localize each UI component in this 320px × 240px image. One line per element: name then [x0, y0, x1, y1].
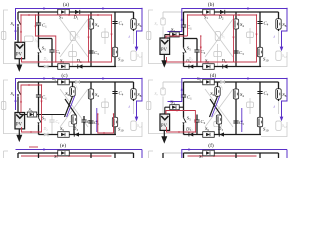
- ghost diode on bottom rail: [44, 133, 48, 137]
- switch S5 blade on C1 branch: [182, 116, 192, 125]
- output current arrow: [129, 78, 143, 122]
- ghost wire bottom right: [116, 31, 142, 67]
- blue conduction path through input switch: [168, 7, 288, 32]
- capacitor C3 on S4 branch: [88, 120, 99, 126]
- ghost switch mid bottom: [69, 122, 77, 127]
- diode D3 on bottom rail: [72, 126, 79, 137]
- ghost switch center: [247, 28, 254, 44]
- switch on lower diagonal: [71, 115, 76, 135]
- ghost diode label: [188, 127, 194, 132]
- capacitor C1 branch: [36, 12, 47, 67]
- ghost wire bottom right: [116, 101, 142, 137]
- capacitor C4 branch: [257, 82, 268, 135]
- ghost inactive component left edge: [1, 32, 6, 40]
- capacitor C2 relocated branch: [81, 116, 92, 135]
- output current arrow: [129, 8, 143, 52]
- svg-text:(b): (b): [208, 1, 215, 8]
- svg-text:PV: PV: [16, 52, 23, 57]
- svg-text:PV: PV: [161, 48, 168, 53]
- red conduction path C2 branch: [200, 35, 202, 62]
- ghost switch S9: [25, 36, 39, 43]
- subcircuit (a) left column state 1: [1, 7, 142, 72]
- subcircuit (e) partial left column: [4, 147, 143, 160]
- switch S9 on bottom rail: [58, 126, 70, 137]
- caption (b): [208, 1, 215, 8]
- ghost switch on crossing: [215, 32, 225, 41]
- ghost diode on top rail: [73, 80, 80, 90]
- capacitor C1 branch: [36, 82, 47, 135]
- PV source: [160, 38, 170, 54]
- wire top rail: [184, 81, 279, 83]
- wire crossing diagonals: [210, 96, 222, 117]
- capacitor C4 branch: [112, 82, 123, 135]
- ghost inactive outer wire left: [149, 10, 186, 64]
- wire PV negative lead with ground arrow: [16, 59, 22, 72]
- wire bottom rail: [184, 134, 262, 136]
- red conduction path PV loop: [166, 109, 196, 133]
- ghost diode on bottom rail: [44, 65, 48, 69]
- ghost switch S12 right: [131, 51, 142, 60]
- ghost diode label: [43, 57, 49, 62]
- switch S10 on C4 branch: [257, 117, 269, 132]
- switch S10 on C4 branch: [112, 117, 124, 132]
- blue conduction path through input switch: [168, 77, 288, 102]
- switch S1 on top rail: [58, 9, 70, 20]
- ghost diode label: [188, 57, 194, 62]
- switch S5 on top rail: [197, 76, 214, 85]
- caption (c): [61, 72, 67, 79]
- output current arrow: [274, 8, 288, 52]
- switch S8 output branch: [276, 82, 287, 101]
- switch on lower diagonal: [216, 115, 221, 135]
- red conduction path C2 loop: [34, 14, 56, 62]
- ghost switch center: [247, 98, 254, 114]
- subcircuit (b) right column state 1: [146, 7, 287, 69]
- ghost wire bottom right: [261, 101, 287, 137]
- diode D1 on bottom rail: [185, 126, 193, 136]
- blue return path mid branch: [96, 108, 98, 132]
- ghost top rail left segment: [163, 11, 184, 13]
- caption (a): [63, 1, 69, 8]
- red conduction path outer loop: [167, 14, 258, 63]
- capacitor C1 branch: [181, 12, 192, 67]
- switch S4 branch: [88, 12, 99, 67]
- diode D3 on bottom rail: [76, 58, 83, 69]
- ghost inactive outer wire left: [4, 80, 41, 134]
- partial circuit top rail: [16, 147, 143, 157]
- switch S4 branch: [233, 82, 244, 135]
- switch S3 on bottom rail: [58, 58, 70, 69]
- subcircuit (f) partial right column: [149, 148, 288, 159]
- ghost wire bottom right: [261, 31, 287, 67]
- switch S1 on top rail: [203, 9, 215, 20]
- switch S10 on C4 branch: [112, 47, 124, 62]
- wire C1 to C2 link: [39, 38, 53, 40]
- ghost left rail: [155, 82, 166, 114]
- partial circuit top rail: [163, 148, 287, 158]
- ghost switch center: [102, 98, 109, 114]
- switch S4 branch: [233, 12, 244, 67]
- capacitor C3 on S4 branch: [233, 120, 244, 126]
- ghost inactive component left edge: [146, 32, 151, 40]
- diode D1 on bottom rail: [185, 58, 193, 68]
- blue conduction path top: [14, 7, 142, 40]
- PV source: [160, 114, 170, 130]
- ghost switch S12 right: [131, 121, 142, 130]
- ghost switch mid bottom: [69, 44, 77, 67]
- switch S6 on diagonal branch: [65, 82, 75, 97]
- switch S5 blade on C1 branch: [37, 46, 47, 55]
- ghost inactive component left edge: [1, 102, 6, 110]
- blue return path mid branch: [241, 108, 243, 132]
- diode D3 on bottom rail: [217, 126, 224, 137]
- capacitor C3 on S4 branch: [88, 50, 99, 56]
- svg-text:(d): (d): [210, 72, 217, 79]
- ghost switch mid bottom: [214, 122, 222, 127]
- ghost inactive outer wire left: [4, 10, 41, 64]
- wire left rail: [17, 82, 19, 112]
- switch S8 output branch: [131, 82, 142, 101]
- svg-text:(f): (f): [208, 142, 214, 149]
- wire C1 to C2 link: [184, 38, 198, 40]
- ghost capacitor C2 branch: [49, 115, 60, 135]
- wire bottom rail: [184, 66, 262, 68]
- ghost crossing wires: [60, 89, 88, 127]
- wire top rail: [184, 11, 279, 13]
- ghost diode on top rail: [218, 80, 225, 90]
- svg-text:PV: PV: [16, 123, 23, 128]
- ghost crossing wires: [60, 19, 88, 57]
- switch S3 beside PV: [165, 100, 184, 114]
- wire bottom rail: [39, 134, 117, 136]
- caption (f): [208, 142, 214, 149]
- diode D3 on bottom rail: [221, 58, 228, 69]
- PV source: [15, 42, 25, 58]
- switch S6 output branch: [131, 12, 142, 31]
- switch S5 blade on C1 branch: [182, 46, 192, 55]
- switch S9 on bottom rail: [203, 126, 215, 137]
- ghost left rail: [155, 12, 166, 38]
- output current arrow: [274, 78, 288, 122]
- partial branch stubs: [4, 150, 143, 159]
- switch S4 branch: [88, 82, 99, 135]
- PV source: [15, 113, 25, 129]
- svg-text:(a): (a): [63, 1, 69, 8]
- capacitor C2 branch: [49, 39, 60, 67]
- ghost switch mid bottom: [214, 44, 222, 67]
- capacitor C1 branch: [181, 82, 192, 135]
- ghost diode label: [43, 127, 49, 132]
- capacitor C3 on S4 branch: [233, 50, 244, 56]
- ghost switch center: [102, 28, 109, 44]
- diode D1 on top rail: [73, 10, 80, 21]
- capacitor C4 branch: [257, 12, 268, 67]
- ghost top rail left segment: [163, 81, 184, 83]
- red conduction path S4 branch: [87, 14, 89, 62]
- wire left rail: [17, 12, 19, 42]
- ghost switch S12 right: [276, 51, 287, 60]
- capacitor C2 branch: [194, 39, 205, 67]
- red conduction path right loop: [97, 113, 114, 134]
- caption (d): [210, 72, 217, 79]
- switch S2 on left rail: [11, 20, 21, 27]
- wire top rail: [18, 11, 134, 13]
- subcircuit (c) left column state 2: [1, 76, 142, 142]
- diode D2 on top rail: [218, 10, 225, 21]
- red conduction path left loop: [20, 84, 43, 133]
- ghost switch on crossing: [70, 32, 80, 41]
- switch S2 on left rail: [11, 90, 21, 97]
- switch S6 on diagonal branch: [210, 82, 220, 97]
- svg-text:(e): (e): [60, 142, 66, 149]
- red conduction path outer loop: [20, 14, 113, 63]
- switch S2 on bottom rail: [203, 58, 215, 69]
- capacitor C2 branch: [194, 115, 205, 135]
- blue conduction path top: [14, 77, 142, 110]
- red conduction path S4 branch: [232, 15, 234, 62]
- capacitor C4 branch: [112, 12, 123, 67]
- wire crossing diagonals: [65, 96, 77, 117]
- caption (e): [60, 142, 66, 149]
- partial branch stubs: [149, 150, 288, 159]
- svg-text:(c): (c): [61, 72, 67, 79]
- ghost inactive outer wire left: [149, 80, 186, 134]
- wire PV negative lead with ground arrow: [161, 54, 167, 67]
- subcircuit (d) right column state 2: [146, 76, 287, 143]
- switch S3 beside PV: [20, 107, 65, 117]
- switch S5 on top rail: [52, 76, 69, 85]
- ghost crossing wires: [205, 89, 233, 127]
- ghost inactive component left edge: [146, 102, 151, 110]
- partial switch S5 on top rail: [199, 150, 214, 160]
- switch S7 beside PV: [165, 27, 184, 38]
- switch S5 blade on C1 branch: [37, 116, 47, 125]
- red conduction path input switch: [166, 35, 188, 39]
- switch S10 on C4 branch: [257, 47, 269, 62]
- wire top rail: [18, 81, 134, 83]
- wire PV negative lead with ground arrow: [161, 130, 167, 143]
- partial switch S5 on top rail: [54, 150, 69, 160]
- switch S8 output branch: [276, 12, 287, 31]
- ghost switch S12 right: [276, 121, 287, 130]
- wire bottom rail: [39, 66, 117, 68]
- ghost crossing wires: [205, 19, 233, 57]
- wire PV negative lead with ground arrow: [16, 129, 22, 142]
